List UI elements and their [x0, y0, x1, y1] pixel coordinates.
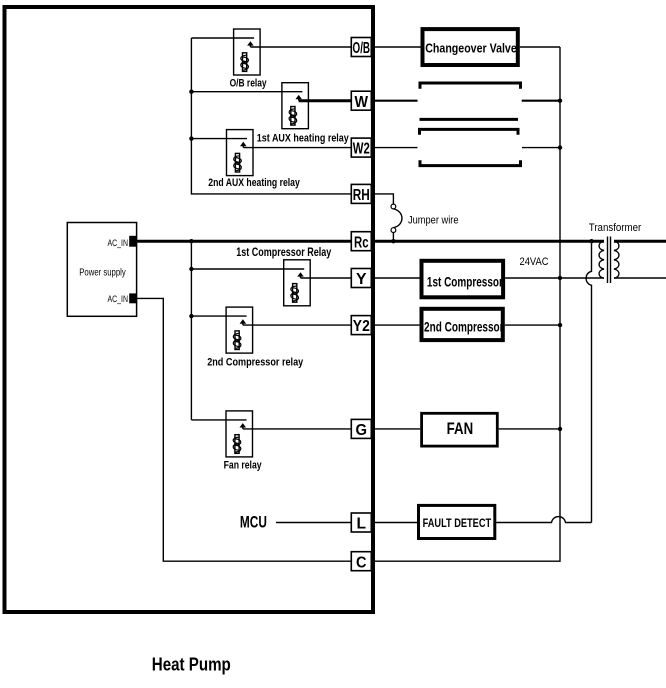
relay K1 (O/B relay): input wire: [191, 37, 254, 39]
transformer T1: core: [607, 237, 609, 284]
svg-text:W2: W2: [353, 141, 370, 158]
relay K2 (1st AUX heating relay): input wire: [191, 91, 302, 93]
wire: O/B terminal to changeover valve: [373, 46, 421, 48]
svg-text:W: W: [355, 94, 369, 111]
power supply AC_IN terminal (bottom): [108, 293, 137, 304]
junction feed to K2: [189, 90, 193, 94]
svg-text:G: G: [356, 422, 368, 439]
svg-text:AC_IN: AC_IN: [108, 238, 129, 248]
relay K6 (fan relay): arrow: [240, 423, 247, 427]
fault detect box: [419, 505, 495, 538]
wire: relay feed vertical (upper), from O/B relay input down to RH wire: [191, 38, 351, 194]
relay K4 (1st compressor relay): box: [284, 260, 311, 306]
junction feed to K4: [189, 267, 193, 271]
relay K6 (fan relay): output wire: [243, 428, 351, 430]
relay K3 (2nd AUX heating relay): output wire: [243, 147, 351, 149]
svg-text:24VAC: 24VAC: [520, 256, 549, 268]
svg-text:Jumper wire: Jumper wire: [408, 215, 459, 227]
terminal G: [351, 419, 371, 439]
relay K1 (O/B relay): coil: [241, 53, 249, 72]
svg-text:RH: RH: [353, 187, 370, 204]
fan box: [422, 413, 498, 446]
changeover valve box: [423, 29, 518, 65]
wire: MCU to L terminal: [276, 522, 351, 524]
svg-text:2nd Compressor relay: 2nd Compressor relay: [207, 357, 304, 369]
relay K5 (2nd compressor relay): arrow: [240, 319, 247, 323]
transformer T1: secondary winding (left): [599, 241, 604, 278]
relay K6 (fan relay): input wire: [191, 419, 246, 421]
relay K6 (fan relay): box: [226, 411, 253, 457]
svg-text:1st Compressor: 1st Compressor: [427, 274, 503, 290]
heater element 1 upper bar: [420, 83, 521, 89]
svg-text:2nd AUX heating relay: 2nd AUX heating relay: [208, 177, 300, 189]
junction fan to common: [558, 427, 562, 431]
power supply AC_IN terminal (top): [108, 236, 137, 248]
junction jumper on Rc wire: [391, 239, 395, 243]
terminal W: [351, 91, 371, 111]
svg-text:Power supply: Power supply: [79, 267, 126, 279]
svg-text:FAN: FAN: [447, 419, 474, 438]
relay K5 (2nd compressor relay): output wire: [243, 324, 351, 326]
svg-text:O/B: O/B: [353, 40, 371, 57]
terminal O/B: [351, 38, 371, 58]
wire: common vertical line (right side): [373, 47, 560, 561]
junction feed line on Rc wire: [189, 239, 193, 243]
relay K2 (1st AUX heating relay): coil: [289, 107, 297, 126]
wire: 2nd heater element to common line: [522, 147, 560, 149]
wire: fault detect to 24VAC hot riser, hops over common line: [496, 517, 591, 523]
relay K5 (2nd compressor relay): input wire: [191, 315, 246, 317]
terminal W2: [351, 138, 371, 158]
junction feed to K3: [189, 136, 193, 140]
relay K6 (fan relay): coil: [233, 435, 241, 454]
svg-text:Y2: Y2: [353, 318, 370, 335]
1st compressor box: [422, 261, 504, 298]
svg-text:L: L: [357, 516, 367, 533]
wire: W terminal to 1st heater element: [373, 100, 418, 102]
terminal C: [351, 552, 371, 572]
transformer T1: primary winding (right): [614, 241, 619, 278]
wire: G terminal to fan: [373, 428, 420, 430]
terminal Y2: [351, 316, 371, 336]
relay K1 (O/B relay): box: [234, 29, 261, 75]
relay K5 (2nd compressor relay): box: [226, 307, 253, 353]
svg-text:MCU: MCU: [240, 513, 267, 532]
wire: W2 terminal to 2nd heater element: [373, 147, 418, 149]
wire: Y2 terminal to 2nd compressor: [373, 324, 420, 326]
relay K2 (1st AUX heating relay): output wire: [299, 99, 352, 102]
relay K3 (2nd AUX heating relay): box: [227, 130, 254, 176]
wire: transformer primary bottom lead: [614, 277, 666, 279]
relay K2 (1st AUX heating relay): arrow: [295, 95, 302, 99]
wire: RH terminal to jumper: [373, 194, 393, 204]
svg-text:AC_IN: AC_IN: [108, 294, 129, 304]
svg-text:FAULT DETECT: FAULT DETECT: [423, 518, 492, 530]
relay K3 (2nd AUX heating relay): coil: [234, 153, 242, 172]
heater element 2 lower bar: [420, 160, 521, 165]
jumper wire symbol (arc with end circles): [393, 209, 402, 228]
wire: Rc 24VAC feed from power supply to Rc terminal (thick): [137, 240, 352, 243]
2nd compressor box: [422, 309, 504, 340]
terminal RH: [351, 184, 371, 204]
junction heater2 to common: [558, 145, 562, 149]
relay K1 (O/B relay): output wire: [250, 46, 351, 48]
terminal Rc: [351, 232, 371, 252]
svg-text:Rc: Rc: [354, 234, 369, 251]
wire: L terminal to fault detect: [373, 522, 417, 524]
wire: fan to common line: [499, 428, 560, 430]
terminal Y: [351, 269, 371, 289]
junction feed to K5: [189, 314, 193, 318]
wire: changeover valve to common line: [520, 46, 560, 48]
relay K1 (O/B relay): arrow: [247, 41, 254, 45]
wire: 24VAC hot riser (Rc wire down to fault detect), hops over 24VAC return: [586, 241, 591, 522]
relay K3 (2nd AUX heating relay): input wire: [191, 138, 247, 140]
wire: relay feed vertical (lower), from Rc wire down to Fan relay input: [190, 241, 192, 420]
junction 2nd compressor to common: [558, 323, 562, 327]
svg-text:Changeover Valve: Changeover Valve: [425, 40, 517, 55]
wire: power supply AC_IN return to C terminal: [137, 298, 352, 561]
junction 24VAC return to common: [558, 276, 562, 280]
junction heater1 to common: [558, 99, 562, 103]
svg-text:1st Compressor Relay: 1st Compressor Relay: [236, 245, 331, 259]
terminal L: [351, 513, 371, 533]
relay K4 (1st compressor relay): output wire: [301, 277, 352, 279]
wire: Rc terminal to transformer secondary (thick 24VAC hot): [373, 240, 604, 243]
relay K4 (1st compressor relay): arrow: [297, 272, 304, 276]
wire: 2nd compressor to common line: [505, 324, 560, 326]
relay K5 (2nd compressor relay): coil: [233, 331, 241, 350]
svg-text:Transformer: Transformer: [589, 222, 642, 234]
svg-text:Y: Y: [356, 271, 367, 288]
svg-text:Heat Pump: Heat Pump: [152, 655, 231, 675]
relay K4 (1st compressor relay): coil: [291, 284, 299, 303]
relay K3 (2nd AUX heating relay): arrow: [240, 142, 247, 146]
svg-text:2nd Compressor: 2nd Compressor: [424, 319, 504, 335]
junction fault-detect feed on Rc wire: [589, 239, 593, 243]
wire: 1st compressor to transformer secondary (24VAC return): [505, 277, 604, 279]
heater element 1 lower bar: [420, 118, 519, 121]
svg-text:O/B relay: O/B relay: [230, 77, 268, 89]
wire: transformer primary top lead: [614, 240, 666, 243]
wire: Y terminal to 1st compressor: [373, 277, 420, 279]
power supply box: [67, 223, 136, 317]
svg-text:C: C: [356, 554, 367, 571]
heater element 2 upper bar: [420, 129, 519, 134]
svg-text:Fan relay: Fan relay: [224, 460, 263, 472]
relay K4 (1st compressor relay): input wire: [191, 268, 304, 270]
svg-text:1st AUX heating relay: 1st AUX heating relay: [257, 133, 350, 145]
relay K2 (1st AUX heating relay): box: [282, 83, 309, 129]
wire: 1st heater element to common line: [522, 100, 560, 102]
thermostat enclosure box: [5, 7, 374, 612]
